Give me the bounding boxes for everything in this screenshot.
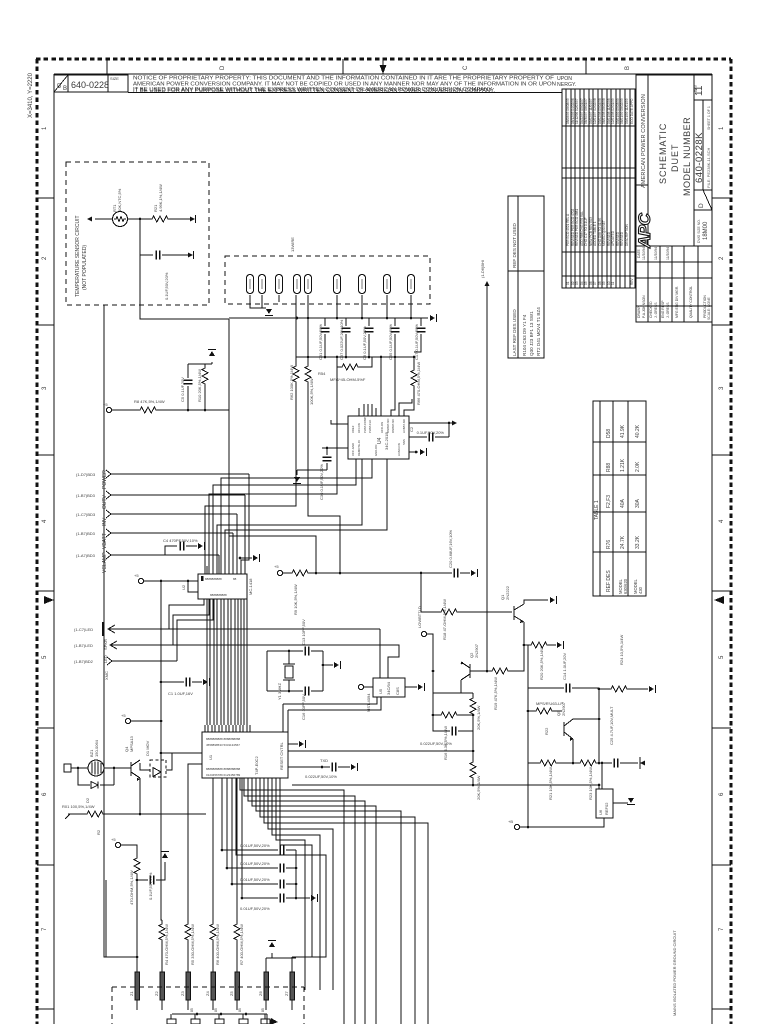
crystal right vertical: [322, 651, 324, 691]
wire to capacitor C22: [140, 254, 153, 256]
node junction at x140: [139, 218, 142, 221]
junction at 433 671: [432, 670, 435, 673]
svg-text:85: 85: [261, 1008, 265, 1012]
ground at cap bus right: [430, 314, 437, 322]
jumper Z5: [235, 968, 240, 1010]
resistor R21b: [538, 760, 558, 766]
svg-text:630/620: 630/620: [623, 578, 628, 594]
caps quad junctions: [295, 867, 298, 870]
svg-text:C37 0.022UF,20V,10%: C37 0.022UF,20V,10%: [339, 319, 344, 360]
left margin zone dividers: [37, 197, 54, 199]
svg-text:MFG ENG DIV MGR.: MFG ENG DIV MGR.: [675, 286, 679, 318]
bottom dashed box: [112, 987, 304, 1024]
svg-text:8888888888 8888888888: 8888888888 8888888888: [206, 737, 241, 741]
svg-text:IT BE USED FOR ANY PURPOSE WIT: IT BE USED FOR ANY PURPOSE WITHOUT THE E…: [133, 88, 495, 94]
wire Q4 emitter down: [139, 778, 141, 814]
svg-text:(1-D6)BHI: (1-D6)BHI: [480, 260, 485, 278]
TABLE 1: [593, 401, 646, 596]
svg-text:PRODUCTION: PRODUCTION: [703, 295, 707, 318]
diode D1 dashed box: [150, 760, 166, 777]
buzzer BZ1: [88, 760, 104, 776]
connector pin oval 4: [293, 275, 300, 294]
svg-text:TEMPERATURE SENSOR CIRCUIT: TEMPERATURE SENSOR CIRCUIT: [75, 215, 81, 297]
bottom box wires: [171, 1014, 267, 1024]
svg-text:+5: +5: [274, 564, 279, 569]
U5 right ground: [405, 686, 417, 688]
wire 473 down from C19: [472, 731, 474, 762]
Q1 collector wire to ground: [524, 600, 548, 604]
svg-text:ACI-ON: ACI-ON: [357, 423, 361, 433]
wire LED2 to U5 second pin: [173, 645, 399, 678]
input arrow VBATT: [106, 529, 111, 537]
svg-text:SPKR: SPKR: [103, 639, 108, 650]
svg-text:430: 430: [638, 586, 643, 594]
svg-text:2N2907: 2N2907: [474, 643, 479, 658]
svg-text:Z6: Z6: [258, 991, 263, 996]
title block names text: [637, 247, 707, 318]
svg-text:R5 330-OHM,5%,1/4W: R5 330-OHM,5%,1/4W: [190, 924, 195, 965]
jumper Z7: [290, 962, 295, 1010]
svg-text:R20 20K,5%,1/4W: R20 20K,5%,1/4W: [539, 647, 544, 680]
svg-text:REF DES NOT USED: REF DES NOT USED: [512, 222, 517, 268]
svg-text:FILE: PE238K-11.SCH: FILE: PE238K-11.SCH: [706, 148, 711, 189]
svg-text:ECO DATE APPD: ECO DATE APPD: [630, 98, 634, 124]
staircase wire 5: [256, 778, 401, 1024]
capacitor bus wire: [229, 317, 428, 319]
ground of connector pins: [262, 307, 266, 309]
connector pin oval 8: [383, 275, 390, 294]
svg-text:0.01UF,50V,20%: 0.01UF,50V,20%: [240, 843, 270, 848]
wire x229 vertical: [228, 319, 230, 536]
C3 ground: [161, 852, 169, 859]
resistor R9: [290, 570, 310, 576]
revision history table: [562, 89, 635, 288]
C14 wire: [527, 645, 529, 688]
svg-text:24.7K: 24.7K: [620, 535, 626, 549]
staircase 3: [177, 599, 213, 661]
svg-text:ONBAT-NC: ONBAT-NC: [391, 419, 395, 433]
svg-text:MPSA13: MPSA13: [129, 735, 134, 752]
REF DES table: [508, 196, 544, 358]
wire pin7 down: [361, 295, 363, 318]
outer dashed border right: [730, 59, 733, 1024]
resistor R8 on y410: [138, 405, 158, 415]
junction y763 x599: [598, 762, 601, 765]
svg-text:(1-C7)LED: (1-C7)LED: [74, 627, 93, 632]
VCLAMP wire down: [218, 555, 220, 574]
terminal arrow at C22: [188, 252, 193, 257]
svg-text:D1 MOV: D1 MOV: [145, 740, 150, 756]
jumper Z2: [160, 968, 165, 1010]
svg-text:(1-C7)BD3: (1-C7)BD3: [76, 512, 96, 517]
capacitor C5: [187, 364, 189, 378]
svg-text:POWER: POWER: [102, 470, 108, 489]
connector pin oval 9: [407, 275, 414, 294]
input arrow LED2: [110, 641, 173, 649]
diode D2 in loop: [91, 782, 98, 789]
capacitor C31: [324, 318, 326, 326]
capacitor C37: [345, 318, 347, 326]
svg-text:06/01/99 08/02/99: 06/01/99 08/02/99: [620, 98, 624, 124]
svg-text:2N2907: 2N2907: [561, 701, 566, 716]
U4 pin text rows: [351, 417, 406, 456]
svg-text:MAINS ISOLATED POWER GROUND CI: MAINS ISOLATED POWER GROUND CIRCUIT: [672, 930, 677, 1016]
svg-text:PWM-COMP: PWM-COMP: [363, 417, 367, 433]
+5 rc filter: [115, 842, 120, 847]
wire right long y785: [292, 784, 599, 786]
svg-text:T4P-E0C2: T4P-E0C2: [254, 756, 259, 775]
svg-text:+5: +5: [121, 713, 126, 718]
second bus y357: [296, 356, 414, 358]
C25 ground bar: [639, 757, 641, 769]
junction x487 on y671: [486, 670, 489, 673]
svg-text:U2: U2: [181, 584, 186, 590]
resistor R4 vertical: [161, 920, 163, 924]
svg-text:Q30 J23 BF1 13 SW1: Q30 J23 BF1 13 SW1: [529, 311, 534, 356]
svg-text:85: 85: [190, 1008, 194, 1012]
U6 bottom wire to open circle: [528, 818, 604, 827]
svg-text:TABLE 1: TABLE 1: [594, 500, 600, 520]
Q5 emitter down: [572, 739, 574, 763]
bottom arrow: [270, 1018, 278, 1024]
Q1 emitter wire down: [523, 622, 525, 645]
junction Q5 collector: [598, 718, 601, 721]
svg-text:470-OHM,5%,1/4W: 470-OHM,5%,1/4W: [129, 870, 134, 905]
svg-text:MODEL NUMBER: MODEL NUMBER: [682, 117, 692, 196]
junction at Q4 emitter bottom: [139, 813, 142, 816]
staircase wire 3: [248, 778, 365, 1024]
junction right of U4: [448, 422, 451, 425]
wire bz1 right to Q4: [104, 767, 131, 769]
svg-text:TXD: TXD: [320, 758, 328, 763]
staircase inner 2: [280, 778, 312, 957]
connector pin oval 2: [258, 275, 265, 294]
resistor R21: [150, 216, 170, 222]
U2 pin marker: [201, 576, 204, 581]
capacitor C27: [227, 867, 278, 869]
right margin zone dividers: [712, 197, 731, 199]
svg-text:ENG RESP: ENG RESP: [661, 300, 665, 318]
svg-text:11: 11: [611, 281, 615, 285]
svg-text:U1: U1: [208, 754, 213, 760]
svg-text:0.1UF,50V,20%: 0.1UF,50V,20%: [417, 430, 445, 435]
svg-text:09/01/99 11/01/99: 09/01/99 11/01/99: [625, 98, 629, 124]
IC U5: [373, 678, 405, 697]
svg-text:MPS/R'U63-LP: MPS/R'U63-LP: [536, 701, 563, 706]
R16 lower cap C19: [433, 715, 450, 731]
svg-text:0.022UF,50V,10%: 0.022UF,50V,10%: [305, 774, 337, 779]
junction C1 on x161: [160, 681, 163, 684]
APC logo: [635, 212, 654, 249]
junction left of BZ1: [77, 767, 80, 770]
svg-text:Z7: Z7: [284, 991, 289, 996]
U4 right pin 3 ground: [409, 451, 418, 453]
svg-text:8888888888: 8888888888: [210, 593, 227, 597]
resistor R19: [490, 668, 510, 674]
svg-text:20K,5%,1/4W: 20K,5%,1/4W: [476, 775, 481, 800]
staircase wire 7: [264, 778, 428, 1024]
svg-text:100K,5%,1/4W: 100K,5%,1/4W: [309, 378, 314, 405]
wire from open circle to U2: [144, 580, 198, 582]
svg-text:CHECKED: CHECKED: [649, 301, 653, 318]
svg-text:J. GRESS: J. GRESS: [654, 302, 658, 318]
svg-text:B: B: [625, 66, 631, 70]
svg-text:C31 0.1UF,50V,20%: C31 0.1UF,50V,20%: [318, 324, 323, 360]
wire x161 down: [161, 581, 202, 753]
svg-text:R62 100K,5%,1/4W: R62 100K,5%,1/4W: [289, 365, 294, 400]
ground near jumper row: [271, 953, 273, 958]
terminal arrow right: [190, 216, 195, 221]
svg-text:C2: C2: [409, 426, 414, 432]
resistor R22: [528, 710, 534, 712]
crystal ground: [322, 664, 325, 667]
wire y536 supply to U2: [229, 536, 316, 573]
input bar arrow LED1: [102, 622, 104, 636]
U1 top right pins from U5: [283, 704, 288, 732]
svg-text:85: 85: [214, 1008, 218, 1012]
wire RT1 left: [95, 218, 112, 220]
transistor Q5: [563, 722, 565, 736]
U1 right pin TXD cap C12: [288, 766, 330, 768]
input chevron R01: [65, 814, 70, 819]
svg-text:REF02: REF02: [604, 802, 609, 815]
svg-text:CHG C17 TO 0.1UF: CHG C17 TO 0.1UF: [584, 217, 588, 246]
capacitor C35: [394, 318, 396, 326]
capacitor C3: [137, 879, 148, 881]
svg-text:01: 01: [566, 281, 570, 285]
svg-text:30A: 30A: [635, 498, 641, 508]
junction at U4 left pin: [326, 447, 329, 450]
reference U6 box: [596, 789, 613, 818]
svg-text:0.01UF,50V,20%: 0.01UF,50V,20%: [240, 877, 270, 882]
junction dots on y573: [315, 572, 318, 575]
svg-text:150-0064: 150-0064: [94, 739, 99, 757]
svg-text:+5: +5: [134, 573, 139, 578]
svg-text:C17 0.1UF,50V,20%: C17 0.1UF,50V,20%: [414, 324, 419, 360]
svg-text:640-0228K: 640-0228K: [694, 132, 705, 183]
vertical from C14 junction to Q5: [598, 689, 600, 763]
svg-text:Y1 3MHZ: Y1 3MHZ: [277, 683, 282, 700]
svg-text:07: 07: [593, 281, 597, 285]
connector dashed box: [225, 256, 430, 304]
left margin zone numbers: [42, 126, 48, 931]
capacitor C20: [454, 569, 458, 578]
jumper Z3: [186, 968, 191, 1010]
svg-text:88: 88: [233, 577, 237, 581]
junction y785 x473: [472, 784, 475, 787]
output lower wire y763: [528, 762, 538, 764]
svg-text:MF/1*45-OHM-5%F: MF/1*45-OHM-5%F: [330, 377, 366, 382]
svg-text:R88: R88: [606, 463, 612, 472]
U6 top wire: [601, 763, 603, 789]
svg-text:33.2K: 33.2K: [635, 535, 641, 549]
capacitor C14: [528, 687, 564, 689]
svg-text:GND-ON: GND-ON: [374, 445, 378, 456]
right margin zone numbers: [719, 126, 725, 931]
title block text: [641, 84, 711, 320]
R16 right vertical: [461, 693, 473, 731]
svg-text:C30 0.1UF,50V,20%: C30 0.1UF,50V,20%: [319, 464, 324, 500]
terminal arrow left of RT1: [87, 216, 92, 221]
junction at Q5 emitter on y763: [572, 762, 575, 765]
junction x161 y753: [160, 752, 163, 755]
svg-text:LOBAT-NO: LOBAT-NO: [402, 418, 406, 433]
connector pin oval 5: [304, 275, 311, 294]
top-left drawing number box: [54, 75, 562, 93]
Q2 base wire: [470, 670, 478, 672]
svg-text:2.0K: 2.0K: [635, 461, 641, 472]
U4 right pin 2 capacitor C2: [409, 436, 427, 438]
svg-text:03: 03: [575, 281, 579, 285]
temperature sensor dashed box: [66, 162, 209, 305]
junction at 528 711: [527, 710, 530, 713]
jumper Z1: [135, 968, 140, 1010]
resistor R5 vertical: [187, 915, 189, 924]
svg-text:QUALITY CONTROL: QUALITY CONTROL: [689, 286, 693, 318]
jumper Z6: [264, 968, 269, 1010]
svg-text:(NOT POPULATED): (NOT POPULATED): [82, 245, 88, 290]
supply node y410: [106, 407, 111, 412]
svg-text:C5 0.1UF,20V: C5 0.1UF,20V: [180, 377, 185, 402]
svg-text:C: C: [463, 65, 469, 70]
staircase wire 2: [244, 778, 355, 1024]
capacitor C25: [614, 759, 618, 768]
crystal Y1: [288, 651, 290, 691]
junction on U2 wire: [160, 580, 163, 583]
svg-text:R4 470-OHM,5%,1/4W: R4 470-OHM,5%,1/4W: [164, 924, 169, 965]
notice of proprietary property text block: [133, 76, 576, 94]
resistor R18: [421, 611, 439, 613]
U1 top pins short: [205, 725, 250, 732]
resistor R10 vertical: [204, 364, 206, 368]
svg-text:06/01/98 08/03/98: 06/01/98 08/03/98: [602, 98, 606, 124]
resistor R24: [599, 688, 609, 690]
svg-text:8888888888 8888888888: 8888888888 8888888888: [206, 767, 241, 771]
POWER wire down: [245, 474, 249, 574]
U4 bottom pins staircase to U2: [213, 459, 356, 574]
svg-text:SIZE: SIZE: [110, 76, 119, 81]
svg-text:DATE: DATE: [637, 248, 641, 258]
svg-text:P.A.JOHNSON: P.A.JOHNSON: [642, 295, 646, 318]
svg-text:DUET: DUET: [670, 144, 680, 173]
svg-text:C13 10PF,50V: C13 10PF,50V: [301, 619, 306, 645]
capacitor C4 on VCLAMP stub: [165, 546, 177, 555]
microcontroller U1: [202, 732, 288, 778]
INV wire down: [236, 514, 238, 574]
svg-text:LAST REF DES USED: LAST REF DES USED: [512, 309, 517, 356]
diode D1: [153, 768, 161, 777]
bottom box junction dots: [196, 1013, 199, 1016]
wire pin3 stub: [278, 295, 280, 302]
svg-text:SCALE: NONE: SCALE: NONE: [707, 296, 711, 320]
svg-text:13WIRE: 13WIRE: [290, 237, 295, 252]
vertical bus U2 bottom pins to U1: [207, 599, 247, 725]
wire y785 junction down: [598, 784, 601, 787]
resistor R01: [85, 811, 105, 817]
REF DES table text: [512, 222, 541, 356]
svg-text:PER ECO 4521 REL A: PER ECO 4521 REL A: [566, 213, 570, 246]
svg-text:C25 4.7UF,10V,MULT: C25 4.7UF,10V,MULT: [609, 706, 614, 745]
junction at 473 751: [472, 750, 475, 753]
svg-text:REMOTE-IN: REMOTE-IN: [357, 440, 361, 456]
svg-text:R19 47K,5%,1/4W: R19 47K,5%,1/4W: [493, 677, 498, 710]
C1 ground: [203, 678, 210, 686]
wire RT1 to R21: [128, 218, 150, 220]
top margin zone letters: [220, 65, 631, 70]
svg-text:Z2: Z2: [154, 991, 159, 996]
title block: [636, 75, 712, 322]
svg-text:0.1UF,50V,20%: 0.1UF,50V,20%: [164, 272, 169, 300]
Q2 emitter down: [460, 680, 462, 693]
wire pin2 down: [261, 295, 263, 308]
U1 pin text top row: [206, 737, 241, 777]
svg-text:10K,NTC,5%: 10K,NTC,5%: [117, 188, 122, 212]
resistor R3 vertical: [134, 856, 140, 876]
svg-text:MOVED Q30 NET: MOVED Q30 NET: [602, 220, 606, 246]
svg-text:U5: U5: [378, 688, 383, 694]
svg-text:12/01/97 02/02/98: 12/01/97 02/02/98: [593, 98, 597, 124]
VBATT wire down: [232, 533, 234, 574]
svg-text:X=3410, Y=2220: X=3410, Y=2220: [28, 72, 34, 118]
open circle node 12MHZ: [421, 631, 426, 636]
svg-text:(1-B7)BD3: (1-B7)BD3: [76, 531, 96, 536]
wire R21 to terminal: [170, 218, 190, 220]
svg-text:C20 0.68UF,16V,10%: C20 0.68UF,16V,10%: [448, 529, 453, 568]
revision table tiny text: [566, 98, 634, 285]
svg-text:R01 100,5%,1/4W: R01 100,5%,1/4W: [62, 804, 95, 809]
TABLE 1 text: [594, 424, 643, 594]
svg-text:RESET CNTRL: RESET CNTRL: [279, 742, 284, 770]
staircase from U2 bottom to lower arrows: [169, 599, 204, 629]
U5 left open circle: [358, 684, 363, 689]
U1 right pin y751 wire: [288, 750, 473, 752]
svg-text:12/01/98 02/01/99: 12/01/98 02/01/99: [611, 98, 615, 124]
svg-text:U4: U4: [377, 437, 383, 444]
svg-text:SCHEMATIC: SCHEMATIC: [658, 123, 668, 184]
svg-text:C14 1.0UF,20V: C14 1.0UF,20V: [562, 653, 567, 680]
staircase wire 4: [252, 778, 376, 1024]
svg-text:1.21K: 1.21K: [620, 458, 626, 472]
resistor R54 horizontal: [337, 357, 340, 367]
wire pin9 down: [410, 295, 412, 318]
wire x336 from bus y357 to staircase: [209, 367, 337, 574]
svg-text:SHEET 1 OF 1: SHEET 1 OF 1: [707, 106, 711, 130]
svg-text:R9 10K,5%,1/4W: R9 10K,5%,1/4W: [293, 584, 298, 615]
svg-text:ACO-ON: ACO-ON: [380, 422, 384, 433]
wire C22 to terminal: [162, 254, 188, 256]
filter cluster top wire: [188, 363, 212, 365]
resistor R66 vertical: [413, 357, 415, 370]
svg-text:40.2K: 40.2K: [635, 424, 641, 438]
wire z7 top: [291, 957, 293, 962]
open circle node left of U1: [125, 718, 130, 723]
resistor R15 vertical: [470, 760, 476, 780]
wire down from node: [139, 219, 141, 255]
svg-text:11/12/96 02/03/97: 11/12/96 02/03/97: [575, 98, 579, 124]
svg-text:DRAWN: DRAWN: [637, 305, 641, 318]
resistor R20: [524, 644, 529, 646]
svg-text:R10 20K,5%,1/4W: R10 20K,5%,1/4W: [197, 369, 202, 402]
svg-text:11/30/94: 11/30/94: [654, 247, 658, 260]
U4 left pin remote: [322, 447, 348, 449]
svg-text:ADDED TABLE 1: ADDED TABLE 1: [593, 221, 597, 246]
svg-text:R18 47-OHM,5%,1/4W: R18 47-OHM,5%,1/4W: [442, 599, 447, 640]
svg-text:B: B: [63, 86, 67, 92]
input arrow INV: [106, 510, 111, 518]
svg-text:(1-D7)BD3: (1-D7)BD3: [76, 472, 96, 477]
input chevron XMC: [107, 657, 112, 665]
capacitor C29: [242, 897, 278, 899]
